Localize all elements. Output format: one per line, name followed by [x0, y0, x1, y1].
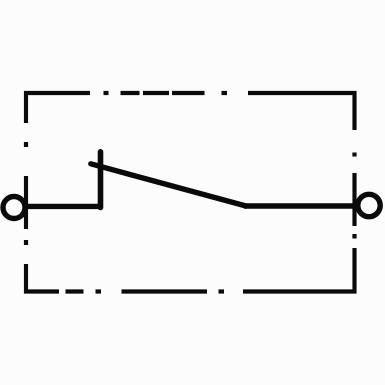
enclosure border top dash 2 — [143, 91, 169, 95]
enclosure border bottom dot 2 — [219, 289, 225, 293]
enclosure border bottom dot 1 — [96, 289, 102, 293]
enclosure border left dot 1 — [24, 142, 28, 147]
enclosure border top dot 2 — [222, 91, 228, 95]
enclosure border top dash 3 — [172, 91, 205, 95]
enclosure border top-left corner segment — [26, 93, 90, 123]
enclosure border bottom long dash — [122, 289, 208, 293]
enclosure border bottom dash 1 — [66, 289, 84, 293]
enclosure border top dash 1 — [121, 91, 140, 95]
enclosure border top-right corner segment — [248, 93, 355, 130]
enclosure border right dot 1 — [352, 153, 356, 157]
wire blade to right terminal — [244, 203, 359, 208]
enclosure border top dot 1 — [104, 91, 109, 95]
switch blade (diagonal) — [91, 164, 246, 206]
fixed contact post (vertical riser) — [98, 152, 104, 208]
terminal circle right — [358, 194, 380, 216]
enclosure border bottom-left corner segment — [26, 264, 59, 292]
enclosure border bottom-right corner segment — [243, 248, 355, 292]
terminal circle left — [3, 197, 25, 219]
enclosure border right segment through terminal — [352, 173, 356, 226]
enclosure border left dot 2 — [24, 240, 28, 245]
wire left terminal to contact post — [24, 204, 103, 209]
enclosure border left segment through terminal — [24, 176, 28, 229]
enclosure border right dot 2 — [352, 234, 356, 239]
